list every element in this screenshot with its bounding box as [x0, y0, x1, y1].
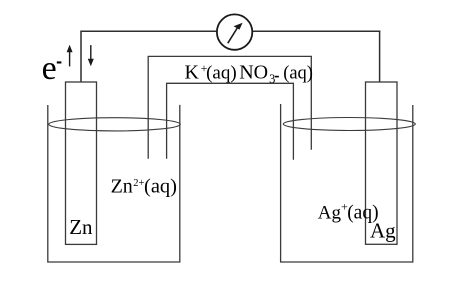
wire — [379, 31, 381, 83]
arrow up — [67, 45, 73, 67]
right beaker — [281, 104, 413, 262]
Ag electrode — [366, 82, 398, 244]
svg-text:Zn: Zn — [111, 175, 133, 197]
svg-text:(aq): (aq) — [206, 63, 237, 84]
svg-text:Ag: Ag — [318, 203, 342, 224]
right liquid surface ellipse — [283, 118, 415, 131]
Zn electrode — [66, 82, 97, 244]
svg-text:e: e — [42, 50, 57, 87]
svg-text:(aq): (aq) — [283, 64, 313, 84]
svg-text:NO: NO — [239, 62, 268, 84]
electron label superscript minus — [57, 61, 62, 63]
svg-text:Zn: Zn — [69, 215, 93, 239]
svg-text:K: K — [185, 62, 200, 84]
svg-text:Ag: Ag — [370, 219, 396, 243]
wire — [81, 30, 217, 32]
galvanometer G1 — [217, 14, 252, 49]
svg-text:3: 3 — [269, 72, 275, 86]
salt bridge inner outline — [167, 83, 294, 159]
wire — [252, 30, 380, 32]
label Zn2+(aq) — [111, 175, 177, 197]
salt bridge outer outline — [148, 56, 311, 158]
left beaker — [48, 105, 180, 262]
label Ag+(aq) — [318, 200, 379, 224]
wire — [80, 31, 82, 83]
svg-text:2+: 2+ — [133, 178, 144, 189]
arrow down — [88, 45, 94, 66]
svg-text:(aq): (aq) — [144, 175, 177, 197]
left liquid surface ellipse — [49, 118, 181, 131]
salt bridge label K+(aq) NO3-(aq) — [185, 61, 313, 86]
